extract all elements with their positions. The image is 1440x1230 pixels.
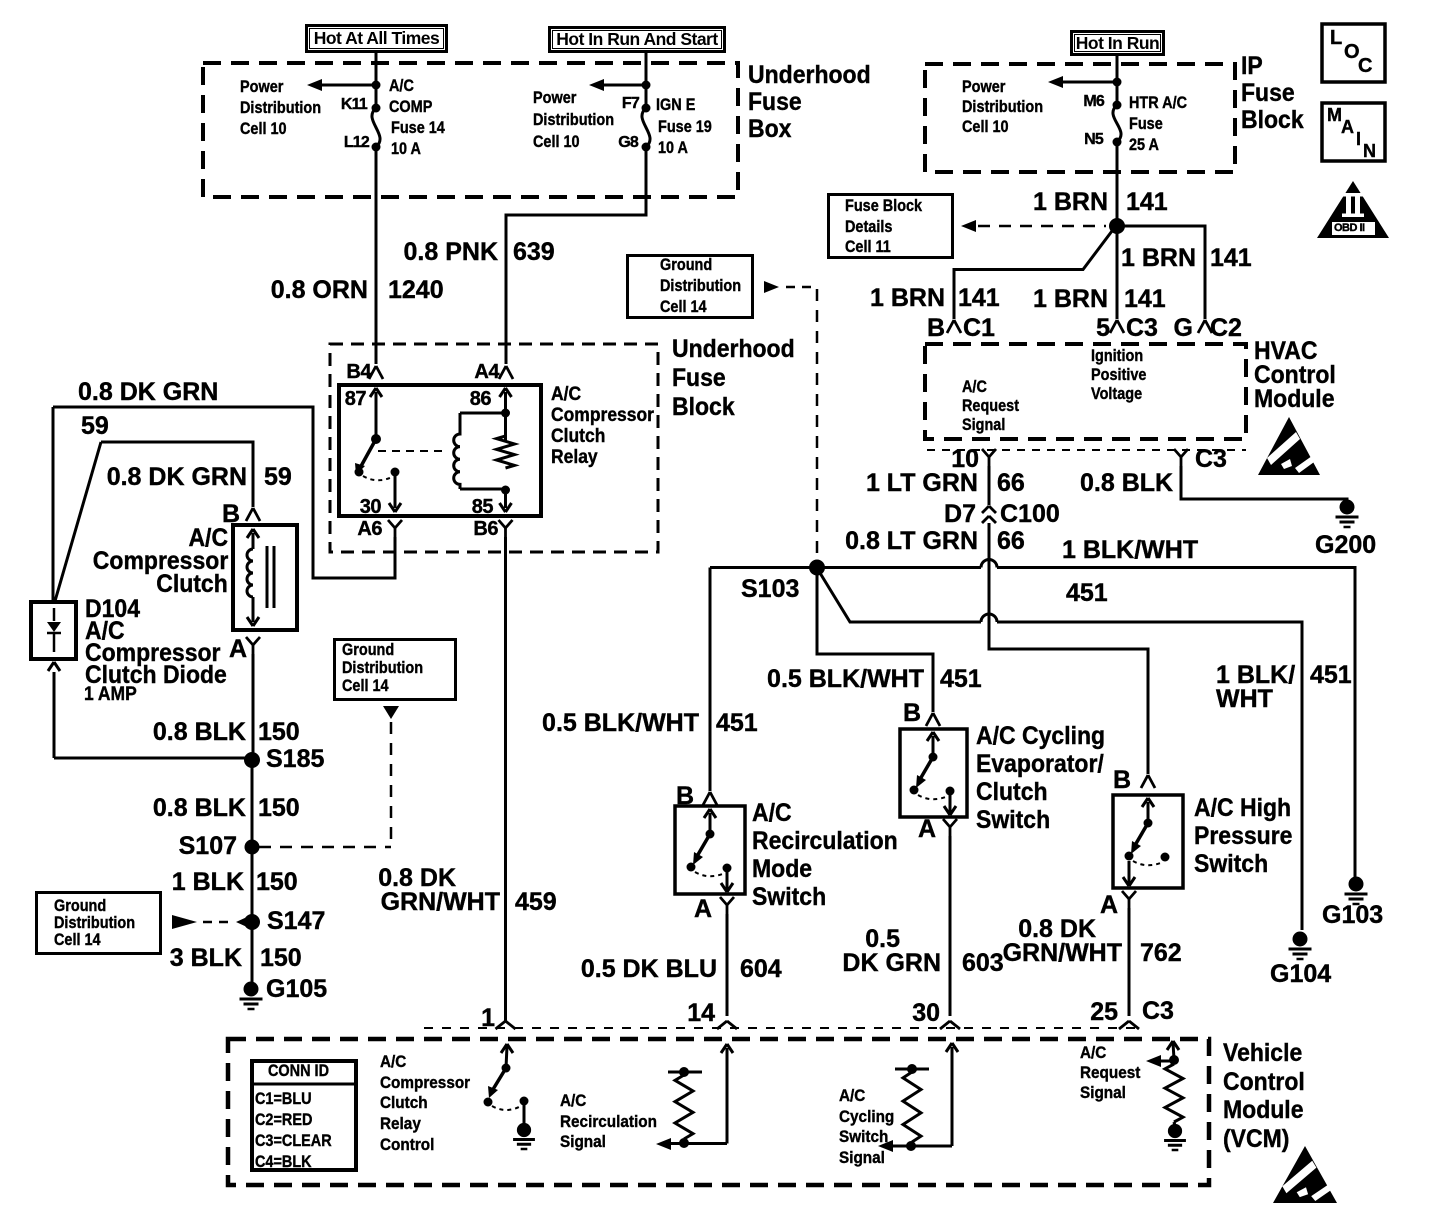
- label: IP Fuse Block line 1: [1241, 54, 1263, 79]
- LOC letter L: [1330, 28, 1342, 48]
- reference text: Ground Distribution Cell 14 (bottom-left) line 3: [54, 931, 101, 948]
- label: A/C COMP Fuse 14 10 A line 1: [389, 77, 414, 94]
- relay pin 87: [345, 389, 366, 409]
- label: Underhood Fuse Box line 2: [748, 90, 802, 115]
- wire label 0.8 DK GRN (lower): [107, 465, 247, 490]
- wire label 0.8 DK: [378, 866, 456, 891]
- label: HTR A/C Fuse 25 A line 1: [1129, 94, 1187, 111]
- connector label D7: [944, 502, 976, 527]
- VCM pin 25: [1090, 1000, 1118, 1025]
- label: A/C Request Signal (VCM) line 2: [1080, 1064, 1140, 1081]
- legend box LOC: [1322, 24, 1385, 82]
- wire: 0.8 BLK C3 to G200: [1181, 466, 1347, 501]
- ESD sensitive icon (HVAC): [1258, 417, 1321, 475]
- terminal N5: [1084, 132, 1103, 148]
- arrow to Power Distribution (right): [1048, 76, 1115, 88]
- label: A/C Cycling Switch Signal line 4: [839, 1149, 885, 1166]
- HVAC connector dashed line: [927, 449, 1246, 451]
- label: A/C Compressor Clutch Relay Control line 3: [380, 1094, 428, 1111]
- label: A/C High Pressure Switch line 1: [1194, 796, 1291, 821]
- label: A/C Compressor Clutch Relay line 4: [551, 448, 598, 467]
- wire: 1 LT GRN 66 from HVAC pin 10: [988, 466, 991, 505]
- reference: Power Distribution Cell 10 (IP) line 3: [962, 118, 1009, 135]
- reference: Power Distribution Cell 10 (K11 fuse) line 1: [240, 78, 283, 95]
- wire: 1 BRN 141 from fuse to splice: [1116, 142, 1119, 226]
- MAIN letter A: [1341, 118, 1354, 136]
- wire label 0.8 BLK (1): [153, 720, 246, 745]
- relay pin 86: [470, 389, 491, 409]
- wire: 1 BLK 150 S107 to S147: [251, 847, 254, 922]
- label: A/C Request Signal (HVAC) line 1: [962, 378, 987, 395]
- wire: BRN 141 branch to HVAC pin 5 C3: [1110, 226, 1124, 333]
- legend table CONN ID: [250, 1059, 358, 1172]
- wire label 451 (right): [1310, 663, 1352, 688]
- wire label 1240: [388, 278, 444, 303]
- label: A/C Cycling Evaporator/Clutch Switch line 4: [976, 808, 1050, 833]
- wire label 604: [740, 957, 782, 982]
- clutch coil symbol: [247, 529, 259, 626]
- label: Underhood Fuse Block line 3: [672, 395, 735, 420]
- label: A/C High Pressure Switch line 2: [1194, 824, 1292, 849]
- label: Fuse 19 / 10 A line 1: [658, 118, 712, 135]
- VCM pin 14 terminal hump: [717, 1021, 737, 1029]
- ground label G104: [1270, 962, 1331, 987]
- label: A/C Recirculation Signal line 1: [560, 1092, 586, 1109]
- wire label 0.8 DK GRN (upper): [78, 380, 218, 405]
- junction dot battery feed: [372, 81, 381, 90]
- splice label S185: [266, 747, 324, 772]
- splice label S107: [179, 834, 237, 859]
- label: A/C Compressor Clutch Relay Control line 4: [380, 1115, 421, 1132]
- label: A/C Request Signal (VCM) line 1: [1080, 1044, 1106, 1061]
- wire: 0.8 LT GRN 66 to A/C High Pressure Switch: [989, 523, 1148, 774]
- terminal B (clutch): [222, 502, 240, 527]
- wire label 150 (1): [258, 720, 300, 745]
- reference box: Fuse Block Details Cell 11: [827, 193, 954, 259]
- legend box MAIN: [1322, 103, 1385, 161]
- wire: 0.5 DK BLU 604 to VCM pin 14: [726, 914, 729, 1016]
- wire label 0.8 ORN: [271, 278, 368, 303]
- junction dot HTR fuse feed: [1113, 78, 1122, 87]
- label: A/C Compressor Clutch Relay Control line 5: [380, 1136, 434, 1153]
- OBD II label: [1334, 223, 1365, 234]
- wire: 3 BLK 150 S147 to G105: [251, 922, 254, 984]
- terminal A6: [357, 519, 382, 539]
- wire label 141 (branch C1): [958, 286, 1000, 311]
- reference box: Ground Distribution Cell 14 (top): [626, 254, 754, 319]
- clutch plates: [267, 546, 274, 608]
- wire label 451 (top): [1066, 581, 1108, 606]
- VCM pin 25 terminal hump: [1119, 1021, 1139, 1029]
- terminal B (cycling switch): [903, 701, 921, 726]
- splice S107 dot: [245, 840, 260, 855]
- ground G103: [1345, 877, 1368, 905]
- terminal L12: [344, 135, 369, 151]
- label: IGN E Fuse 19 10A line 1: [656, 96, 695, 113]
- wire label 0.8 PNK: [404, 240, 498, 265]
- reference: Power Distribution Cell 10 (F19 fuse) line 3: [533, 133, 580, 150]
- dashed reference arrow from Ground Distribution to S103 net: [764, 281, 812, 293]
- A/C Compressor Clutch box: [233, 525, 297, 630]
- ESD sensitive icon (VCM): [1273, 1146, 1338, 1203]
- wire label 639: [513, 240, 555, 265]
- Vehicle Control Module dashed enclosure: [228, 1039, 1209, 1185]
- VCM connector dashed line: [424, 1027, 1135, 1029]
- reference text: Ground Distribution Cell 14 (bottom-left) line 2: [54, 914, 135, 931]
- reference text: Ground Distribution Cell 14 (middle) line 1: [342, 641, 394, 658]
- power feed tag: Hot At All Times: [305, 24, 448, 53]
- label: A/C Recirculation Mode Switch line 3: [752, 857, 812, 882]
- splice S103 dot: [809, 560, 825, 576]
- wire: DK GRN 59 branch to clutch B: [101, 442, 253, 507]
- MAIN letter M: [1327, 106, 1342, 124]
- dashed reference: S107 to Ground Distribution: [259, 706, 399, 847]
- terminal symbol A high pressure: [1122, 891, 1136, 908]
- terminal symbol A cycling: [943, 819, 957, 836]
- label: A/C Compressor Clutch Relay Control line 2: [380, 1074, 470, 1091]
- ground G200: [1336, 500, 1359, 528]
- relay pin 30: [360, 497, 381, 517]
- label: Underhood Fuse Box line 3: [748, 117, 791, 142]
- reference text: Ground Distribution Cell 14 (middle) line 3: [342, 677, 389, 694]
- wire label 0.8 LT GRN: [845, 529, 978, 554]
- reference text: Ground Distribution Cell 14 (top) line 2: [660, 277, 741, 294]
- wire label 66 (upper): [997, 471, 1025, 496]
- CONN ID rows line 4: [255, 1153, 312, 1170]
- connector label C100: [1000, 502, 1060, 527]
- wire label GRN/WHT: [1003, 941, 1122, 966]
- wire label 66 (lower): [997, 529, 1025, 554]
- IP Fuse Block dashed enclosure: [925, 64, 1235, 172]
- terminal A4: [474, 362, 499, 382]
- label: D104 A/C Compressor Clutch Diode line 1: [85, 597, 140, 622]
- CONN ID rows line 1: [255, 1090, 312, 1107]
- label: A/C Compressor Clutch line 1: [188, 526, 228, 551]
- label: A/C Compressor Clutch Relay line 1: [551, 385, 581, 404]
- label: A/C Cycling Switch Signal line 2: [839, 1108, 894, 1125]
- splice label S103: [741, 577, 799, 602]
- ground label G105: [266, 977, 327, 1002]
- HVAC pin C3 terminal: [1174, 449, 1188, 466]
- A/C High Pressure Switch box: [1113, 795, 1183, 888]
- diagonal wire to diode top: [55, 442, 101, 601]
- wire label 150 (4): [260, 946, 302, 971]
- terminal G8: [618, 135, 638, 151]
- label: HTR A/C Fuse 25 A line 3: [1129, 136, 1159, 153]
- wire label 59 (lower): [264, 465, 292, 490]
- label: A/C Recirculation Mode Switch line 2: [752, 829, 898, 854]
- cycling switch internals: [910, 732, 957, 815]
- label: Fuse 19 / 10 A line 2: [658, 139, 688, 156]
- Underhood Fuse Block dashed enclosure: [330, 344, 658, 552]
- VCM request signal resistor: [1146, 1041, 1183, 1126]
- relay switch: pin 87 arm: [355, 388, 402, 512]
- splice S185 dot: [244, 752, 260, 768]
- wire label WHT (right): [1216, 687, 1273, 712]
- HVAC pin C3 (top): [1126, 316, 1158, 341]
- reference: Power Distribution Cell 10 (F19 fuse) line 2: [533, 111, 614, 128]
- reference: Power Distribution Cell 10 (IP) line 2: [962, 98, 1043, 115]
- wire: diode to S185 with up arrow: [48, 662, 246, 758]
- label: A/C Compressor Clutch Relay line 3: [551, 427, 605, 446]
- wire: 0.8 DK GRN 59 vertical to diode: [52, 407, 55, 602]
- label: A/C Recirculation Signal line 3: [560, 1133, 606, 1150]
- OBD II triangle symbol: [1317, 181, 1389, 238]
- reference text: Fuse Block Details Cell 11 line 3: [845, 238, 891, 255]
- VCM cycling signal resistor: [878, 1043, 958, 1152]
- label: IP Fuse Block line 3: [1241, 108, 1304, 133]
- label: D104 A/C Compressor Clutch Diode line 2: [85, 619, 125, 644]
- LOC letter O: [1344, 42, 1360, 62]
- reference text: Fuse Block Details Cell 11 line 2: [845, 218, 892, 235]
- terminal symbol B high pressure: [1141, 775, 1155, 788]
- wire label 1 BRN (branch C3): [1033, 287, 1108, 312]
- wire: B6 to VCM pin 1 (0.8 DK GRN/WHT 459): [504, 537, 507, 1016]
- label: D104 A/C Compressor Clutch Diode line 3: [85, 641, 220, 666]
- label: A/C Recirculation Mode Switch line 1: [752, 801, 792, 826]
- terminal F7: [622, 96, 639, 112]
- CONN ID rows line 3: [255, 1132, 332, 1149]
- VCM pin 30 terminal hump: [940, 1021, 960, 1029]
- ground G105: [240, 982, 263, 1010]
- terminal A (recirc switch): [694, 897, 712, 922]
- HVAC pin 5: [1096, 316, 1110, 341]
- label: D104 A/C Compressor Clutch Diode line 4: [85, 663, 227, 688]
- terminal symbol B6: [499, 520, 513, 537]
- label: A/C Compressor Clutch Relay line 2: [551, 406, 654, 425]
- wire: relay pin30/A6 to clutch feed (DK GRN 59): [53, 407, 395, 578]
- wire: 0.8 ORN 1240 (fuse F14 to relay B4): [375, 147, 378, 364]
- wire label 150 (3): [256, 870, 298, 895]
- wire label 1 BRN (top): [1033, 190, 1108, 215]
- wire label 1 BLK: [172, 870, 244, 895]
- wire label 0.5 DK BLU: [581, 957, 717, 982]
- HVAC pin B: [927, 316, 945, 341]
- terminal symbol B4: [369, 366, 383, 379]
- A/C Compressor Clutch Diode box: [31, 602, 76, 659]
- pin label C3 (HVAC bottom): [1195, 447, 1227, 472]
- splice label S147: [267, 909, 325, 934]
- wire: 0.8 BLK 150 clutch A to S185: [252, 654, 255, 760]
- wire: 0.8 PNK 639 (fuse F19 to relay A4): [506, 147, 646, 364]
- wire label 459: [515, 890, 557, 915]
- terminal A (high pressure switch): [1100, 893, 1118, 918]
- arrow to Power Distribution (mid): [589, 79, 644, 91]
- wire label 0.5 (cycling out): [865, 927, 900, 952]
- wire label 0.8 DK: [1018, 917, 1096, 942]
- terminal B (high pressure switch): [1113, 768, 1131, 793]
- label: HVAC Control Module line 2: [1254, 363, 1336, 388]
- terminal symbol A clutch: [246, 637, 260, 654]
- wire: Hot In Run And Start feed: [645, 53, 648, 108]
- reference text: Ground Distribution Cell 14 (top) line 3: [660, 298, 707, 315]
- reference text: Ground Distribution Cell 14 (bottom-left) line 1: [54, 897, 106, 914]
- label: A/C COMP Fuse 14 10 A line 2: [389, 98, 432, 115]
- wire: BRN 141 branch to HVAC pin G C2: [1117, 226, 1212, 333]
- wire label 141 (top): [1126, 190, 1168, 215]
- VCM recirc signal resistor: [656, 1044, 733, 1150]
- VCM pin 30: [912, 1001, 940, 1026]
- fuse F19 IGN E element: [642, 104, 651, 152]
- wire: BLK/WHT 451 top run to G103 (hop at LT GRN): [710, 560, 1355, 878]
- reference box: Ground Distribution Cell 14 (bottom-left): [35, 891, 162, 955]
- CONN ID header: [268, 1062, 329, 1079]
- wire label 0.8 BLK: [1080, 471, 1173, 496]
- label: 1 AMP: [84, 685, 137, 704]
- reference: Power Distribution Cell 10 (K11 fuse) line 2: [240, 99, 321, 116]
- relay coil: [454, 413, 506, 489]
- wire label 141 (branch C2): [1210, 246, 1252, 271]
- label: A/C Recirculation Signal line 2: [560, 1113, 657, 1130]
- reference: Power Distribution Cell 10 (F19 fuse) line 1: [533, 89, 576, 106]
- wire: 0.5 DK GRN 603 to VCM pin 30: [949, 836, 952, 1016]
- reference text: Ground Distribution Cell 14 (middle) line 2: [342, 659, 423, 676]
- reference text: Ground Distribution Cell 14 (top) line 1: [660, 256, 712, 273]
- wire: Hot In Run feed: [1116, 56, 1119, 105]
- recirc switch internals: [687, 809, 734, 892]
- terminal symbol A6: [388, 520, 402, 537]
- ground label G103: [1322, 903, 1383, 928]
- terminal B4: [346, 362, 371, 382]
- splice S147 dot: [244, 914, 260, 930]
- wire label 451 (cycling): [940, 667, 982, 692]
- terminal A (clutch): [229, 637, 247, 662]
- label: A/C Cycling Evaporator/Clutch Switch line 1: [976, 724, 1105, 749]
- MAIN letter N: [1363, 142, 1376, 160]
- label: Fuse 14 10A line 2: [391, 140, 421, 157]
- A/C Compressor Clutch Relay box: [339, 385, 541, 516]
- wire: 0.8 DK GRN/WHT 762 to VCM pin 25: [1128, 908, 1131, 1016]
- label: A/C Recirculation Mode Switch line 4: [752, 885, 826, 910]
- wire label 1 BLK/WHT (top): [1062, 538, 1198, 563]
- label: A/C Request Signal (HVAC) line 2: [962, 397, 1019, 414]
- reference: Power Distribution Cell 10 (IP) line 1: [962, 78, 1005, 95]
- arrow to Power Distribution (left): [307, 79, 374, 91]
- wire label 1 BRN (branch C2): [1121, 246, 1196, 271]
- label: Ignition Positive Voltage line 1: [1091, 347, 1143, 364]
- label: Vehicle Control Module (VCM) line 4: [1223, 1127, 1289, 1152]
- dashed net line down to S103: [816, 289, 819, 559]
- wire label 150 (2): [258, 796, 300, 821]
- power feed tag: Hot In Run And Start: [548, 26, 726, 53]
- terminal A (cycling switch): [918, 817, 936, 842]
- label: Ignition Positive Voltage line 2: [1091, 366, 1146, 383]
- wire: 0.5 BLK/WHT 451 to Cycling Switch B: [817, 575, 933, 712]
- fuse F14 A/C COMP element: [372, 104, 381, 152]
- terminal symbol B cycling: [926, 713, 940, 726]
- relay resistor: [497, 436, 515, 468]
- label: Vehicle Control Module (VCM) line 3: [1223, 1098, 1304, 1123]
- ground label G200: [1315, 533, 1376, 558]
- VCM pin 14: [687, 1001, 715, 1026]
- label: A/C High Pressure Switch line 3: [1194, 852, 1268, 877]
- wire label 1 BRN (branch C1): [870, 286, 945, 311]
- wire label GRN/WHT 459: [381, 890, 500, 915]
- label: A/C Compressor Clutch line 3: [156, 572, 228, 597]
- high pressure switch internals: [1123, 798, 1170, 886]
- terminal symbol A4: [499, 366, 513, 379]
- terminal M6: [1083, 94, 1104, 110]
- HVAC pin 10 terminal: [982, 449, 996, 466]
- VCM pin 1: [481, 1006, 495, 1031]
- label: Underhood Fuse Block line 1: [672, 337, 795, 362]
- wire: Hot At All Times feed into fuse box: [375, 53, 378, 108]
- VCM relay driver switch: [484, 1044, 529, 1124]
- CONN ID rows line 2: [255, 1111, 312, 1128]
- VCM internal ground (request): [1164, 1124, 1186, 1150]
- label: A/C Compressor Clutch Relay Control line 1: [380, 1053, 406, 1070]
- label: A/C Compressor Clutch line 2: [93, 549, 228, 574]
- A/C Cycling Evaporator/Clutch Switch box: [900, 729, 967, 817]
- wire label 1 BLK/ (right): [1216, 663, 1295, 688]
- label: HTR A/C Fuse 25 A line 2: [1129, 115, 1163, 132]
- wire: 451 branch to G104 (diagonal from S103): [820, 573, 1302, 930]
- label: Underhood Fuse Block line 2: [672, 366, 726, 391]
- VCM pin 25 connector C3: [1142, 999, 1174, 1024]
- wire: 0.8 BLK 150 S185 to S107: [251, 760, 254, 847]
- Underhood Fuse Box dashed enclosure: [203, 63, 738, 197]
- wire label 0.5 BLK/WHT (recirc): [542, 711, 699, 736]
- dashed reference arrow to S147: [172, 915, 247, 929]
- label: A/C Request Signal (VCM) line 3: [1080, 1084, 1126, 1101]
- wire label 0.5 BLK/WHT (cycling): [767, 667, 924, 692]
- relay pin 85: [472, 497, 493, 517]
- wire label 59 (upper): [81, 414, 109, 439]
- fuse HTR A/C element: [1113, 101, 1122, 147]
- CONN ID header separator: [252, 1083, 356, 1086]
- label: A/C Request Signal (HVAC) line 3: [962, 416, 1005, 433]
- label: A/C Cycling Evaporator/Clutch Switch line 3: [976, 780, 1048, 805]
- label: Vehicle Control Module (VCM) line 1: [1223, 1041, 1302, 1066]
- terminal B (recirc switch): [676, 784, 694, 809]
- relay coil output to pin 85: [500, 486, 512, 513]
- HVAC pin G: [1174, 316, 1193, 341]
- label: Fuse 14 10A line 1: [391, 119, 445, 136]
- label: IP Fuse Block line 2: [1241, 81, 1295, 106]
- VCM pin 1 terminal hump: [496, 1016, 516, 1029]
- terminal B6: [473, 519, 498, 539]
- VCM internal ground (relay driver): [513, 1123, 535, 1149]
- dashed reference arrow to Fuse Block Details: [961, 220, 1106, 232]
- reference: Power Distribution Cell 10 (K11 fuse) line 3: [240, 120, 287, 137]
- wire: 0.5 BLK/WHT 451 to Recirculation Switch B: [709, 568, 712, 792]
- HVAC Control Module dashed enclosure: [925, 344, 1246, 439]
- label: Ignition Positive Voltage line 3: [1091, 385, 1142, 402]
- terminal symbol B recirc: [703, 792, 717, 805]
- relay mechanical link (dashed): [378, 450, 448, 452]
- wire: BRN 141 branch to HVAC pin B C1: [947, 231, 1112, 333]
- label: HVAC Control Module line 1: [1254, 339, 1317, 364]
- terminal symbol A recirc: [720, 897, 734, 914]
- wire label 141 (branch C3): [1124, 287, 1166, 312]
- reference text: Fuse Block Details Cell 11 line 1: [845, 197, 922, 214]
- relay pin 86 arrow: [500, 388, 512, 441]
- wire label 1 LT GRN: [866, 471, 978, 496]
- label: HVAC Control Module line 3: [1254, 387, 1335, 412]
- diode symbol: [47, 608, 61, 652]
- junction dot ignition feed: [642, 81, 651, 90]
- wire label 451 (recirc): [716, 711, 758, 736]
- wire label 3 BLK: [170, 946, 242, 971]
- wire label DK GRN: [842, 951, 941, 976]
- A/C Recirculation Mode Switch box: [675, 806, 745, 894]
- MAIN letter I: [1356, 130, 1361, 148]
- splice junction dot (BRN 141): [1109, 218, 1125, 234]
- terminal K11: [341, 97, 367, 113]
- pin number 10: [951, 447, 979, 472]
- HVAC pin C2: [1210, 316, 1242, 341]
- label: A/C Cycling Evaporator/Clutch Switch line 2: [976, 752, 1104, 777]
